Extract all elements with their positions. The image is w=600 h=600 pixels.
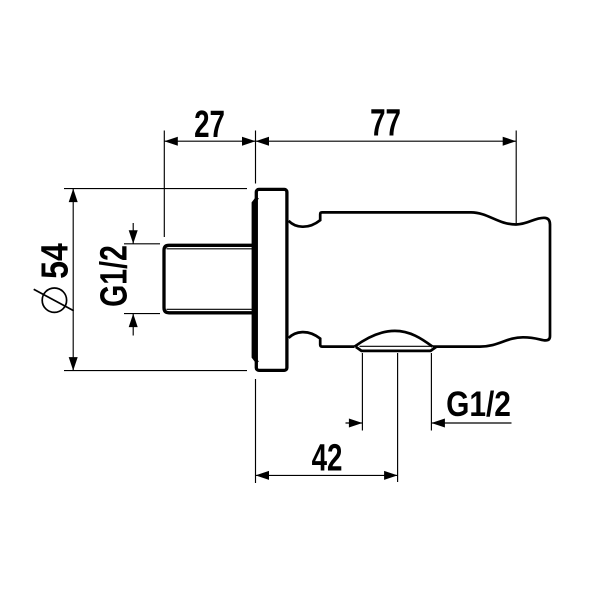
svg-text:77: 77 xyxy=(370,102,401,144)
dim G1/2 left extension line bottom xyxy=(124,313,160,315)
dim G1/2 bottom arrow right xyxy=(431,419,445,428)
svg-text:42: 42 xyxy=(312,438,343,480)
svg-text:G1/2: G1/2 xyxy=(94,245,136,307)
dim 54 arrow bottom xyxy=(69,357,78,371)
dim G1/2 bottom arrow left xyxy=(349,419,363,428)
dim G1/2 left dimension line bottom segment xyxy=(132,314,134,336)
dim 77 extension line right xyxy=(515,131,517,225)
dim 27 arrow right xyxy=(242,137,256,146)
dim 77 arrow right xyxy=(503,137,517,146)
dim 54 arrow top xyxy=(69,189,78,203)
dim G1/2 left arrow bottom xyxy=(129,314,138,328)
thread root line top xyxy=(167,248,257,250)
holder body outline xyxy=(289,212,550,346)
dim 27/77 dimension line xyxy=(164,140,516,142)
dim diameter 54 label: diameter symbol slash xyxy=(34,289,74,311)
dim 77 arrow left xyxy=(256,137,270,146)
dim G1/2 bottom dimension line right segment xyxy=(431,422,511,424)
dim 42 arrow left xyxy=(256,471,270,480)
dim G1/2 left dimension line top segment xyxy=(132,223,134,244)
svg-text:27: 27 xyxy=(194,104,225,146)
dim diameter 54 label: diameter symbol circle xyxy=(42,288,66,312)
dim 42 dimension line xyxy=(256,474,398,476)
dim 54 extension line top xyxy=(64,188,247,190)
dim 27/77 shared extension line (wall face) xyxy=(255,131,257,184)
dim G1/2 bottom extension line right xyxy=(430,353,432,431)
G1/2 threaded pipe outline xyxy=(164,245,256,312)
dim G1/2 left extension line top xyxy=(124,243,160,245)
dim 54 dimension line xyxy=(72,189,74,371)
svg-text:54: 54 xyxy=(34,243,76,279)
port centerline xyxy=(397,353,399,482)
wall flange face xyxy=(256,189,287,370)
dim 54 extension line bottom xyxy=(64,370,247,372)
dim 42 arrow right xyxy=(384,471,398,480)
hose port arch xyxy=(355,331,433,347)
dim G1/2 left arrow top xyxy=(129,230,138,244)
dim G1/2 bottom extension line left xyxy=(361,353,363,431)
dim G1/2 bottom dimension line left segment xyxy=(346,422,363,424)
dim 42 extension line left (wall face) xyxy=(255,379,257,483)
thread root line bottom xyxy=(167,308,257,310)
dim 27 arrow left xyxy=(164,137,178,146)
hose port plate bottom xyxy=(356,347,436,351)
hose port plate top line xyxy=(360,345,433,347)
wall flange back lip xyxy=(253,198,257,363)
dim 27 extension line left xyxy=(163,131,165,238)
svg-text:G1/2: G1/2 xyxy=(446,385,511,424)
